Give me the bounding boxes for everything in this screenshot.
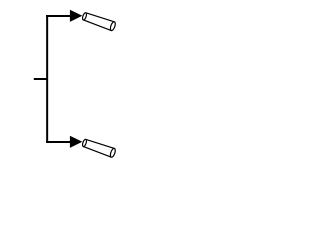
probe P2 tip (filled triangle) [70, 136, 82, 148]
wire: bottom branch segment [46, 141, 70, 143]
probe P2 body (cylinder) [81, 138, 116, 158]
probe P1 body (cylinder) [81, 11, 116, 31]
wire: top branch segment [46, 15, 70, 17]
wire: vertical bus segment [46, 15, 48, 143]
probe P1 tip (filled triangle) [70, 10, 82, 22]
wire: middle stub to off-page node [34, 78, 48, 80]
